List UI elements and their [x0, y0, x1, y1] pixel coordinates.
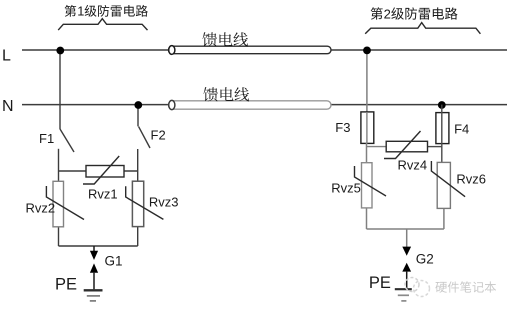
- varistor Rvz5 (body): [355, 163, 387, 208]
- svg-text:Rvz2: Rvz2: [26, 201, 56, 216]
- varistor Rvz4 (body): [384, 131, 428, 159]
- wire: right branch vertical (Rvz6 to bottom): [443, 208, 445, 229]
- svg-text:F1: F1: [39, 131, 54, 146]
- svg-text:F2: F2: [151, 128, 166, 143]
- label 馈电线 (bottom feeder): [203, 87, 249, 101]
- svg-text:L: L: [2, 48, 11, 65]
- varistor Rvz6 (body): [431, 161, 465, 208]
- svg-text:2: 2: [384, 7, 391, 22]
- node: L junction stage 2: [363, 47, 371, 55]
- svg-text:Rvz3: Rvz3: [149, 195, 179, 210]
- wire: horizontal tie through Rvz1: [59, 170, 138, 172]
- varistor Rvz1 (body): [83, 156, 124, 184]
- svg-text:G2: G2: [416, 252, 434, 267]
- label 馈电线 (top feeder): [202, 32, 248, 46]
- wire: bottom tie stage 2: [367, 228, 444, 230]
- fuse F2 (wire + blade): [138, 105, 150, 148]
- fuse F1 (wire + blade): [60, 50, 74, 152]
- svg-text:Rvz6: Rvz6: [456, 172, 486, 187]
- feeder cable on L (capsule symbol): [169, 46, 332, 55]
- ground (stage 1 earth): [84, 290, 103, 301]
- ground (stage 2 earth): [395, 289, 412, 301]
- svg-text:1: 1: [77, 4, 84, 19]
- node: N junction stage 2: [438, 101, 446, 109]
- svg-text:PE: PE: [55, 276, 77, 294]
- svg-text:Rvz1: Rvz1: [88, 187, 118, 202]
- brace for stage 2: [365, 23, 480, 34]
- wire: bottom tie stage 1: [59, 245, 138, 247]
- brace for stage 1: [58, 19, 147, 30]
- node: L junction stage 1: [56, 47, 64, 55]
- wire: left branch vertical (below F1): [58, 149, 60, 246]
- wire: tie to Rvz4 left: [367, 146, 387, 148]
- label stage-2 title (第2级防雷电路): [371, 7, 458, 22]
- feeder cable on N (capsule symbol): [169, 100, 332, 109]
- wire: tie to Rvz4 right: [428, 146, 442, 148]
- spark gap G1 (opposed arrows): [90, 246, 98, 289]
- wire: right branch vertical (below F2): [137, 149, 139, 246]
- fuse F3 (cartridge): [361, 112, 374, 143]
- wire N (neutral line): [22, 104, 507, 106]
- varistor Rvz2 (body): [46, 181, 84, 227]
- watermark text 硬件笔记本: [435, 281, 496, 292]
- varistor Rvz3 (body): [126, 181, 164, 226]
- fuse F4 (cartridge): [436, 105, 449, 163]
- svg-text:F4: F4: [454, 122, 469, 137]
- svg-text:G1: G1: [105, 254, 123, 269]
- wire: drop from L to F3 (stage 2): [366, 50, 368, 144]
- spark gap G2 (opposed arrows): [402, 229, 411, 289]
- watermark logo (dashed circles): [405, 278, 430, 297]
- svg-text:N: N: [2, 98, 14, 115]
- wire L (phase line): [22, 49, 507, 51]
- node: N junction stage 1: [134, 101, 142, 109]
- svg-text:PE: PE: [369, 274, 391, 292]
- wire: left branch vertical stage 2: [366, 143, 368, 229]
- svg-text:Rvz4: Rvz4: [398, 158, 428, 173]
- label stage-1 title (第1级防雷电路): [65, 4, 148, 19]
- svg-text:Rvz5: Rvz5: [331, 181, 361, 196]
- svg-text:F3: F3: [335, 120, 350, 135]
